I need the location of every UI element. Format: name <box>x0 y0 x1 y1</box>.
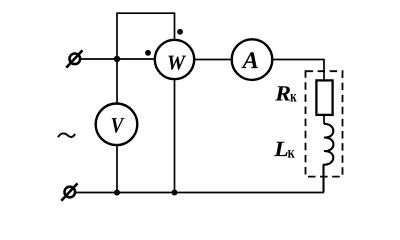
wire: A to load branch, down to resistor <box>272 60 324 81</box>
wire: junction down to voltmeter <box>116 59 118 104</box>
resistor Rk body <box>316 80 332 115</box>
wire: bottom rail <box>75 192 324 194</box>
label Rk <box>275 86 290 100</box>
wire: top from source terminal to wattmeter <box>81 58 155 60</box>
label Lk <box>274 142 288 156</box>
polarity dot: wattmeter current coil <box>145 50 151 56</box>
wire: wattmeter current-coil bottom to rail <box>174 79 176 192</box>
AC source tilde <box>58 133 75 137</box>
wire: wattmeter voltage-coil loop <box>117 13 175 59</box>
wire: resistor to inductor lead <box>323 115 325 124</box>
wire: W to A <box>194 59 232 61</box>
node: bottom rail wattmeter junction <box>172 190 178 196</box>
terminal: bottom input <box>65 187 76 198</box>
inductor Lk coil <box>324 124 334 193</box>
wattmeter W <box>155 40 194 79</box>
node: bottom rail voltmeter junction <box>114 190 120 196</box>
polarity dot: wattmeter voltage coil <box>177 29 183 35</box>
terminal: top input <box>70 54 81 65</box>
wire: voltmeter to bottom rail <box>116 145 118 193</box>
ammeter A <box>232 39 273 80</box>
voltmeter V <box>96 104 138 146</box>
node: junction of voltmeter/voltage-coil tap <box>114 56 120 62</box>
dashed box around load <box>306 71 343 176</box>
